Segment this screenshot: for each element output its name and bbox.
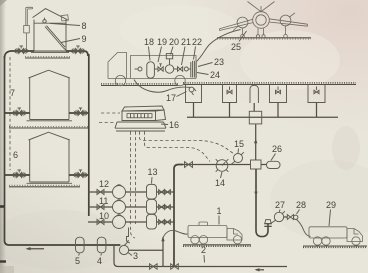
airplane left engine	[233, 17, 248, 30]
filter 13b outlet valves	[157, 205, 175, 210]
label 12	[99, 179, 109, 189]
hydrant riser capsule	[250, 85, 258, 103]
line meter to coupling	[284, 216, 288, 218]
label 16 leader	[161, 123, 168, 126]
label 23 leader	[198, 63, 213, 67]
label 27 leader	[278, 210, 281, 213]
label 17	[166, 93, 176, 103]
label 26	[272, 144, 282, 154]
svg-text:5: 5	[75, 256, 80, 266]
hydrant junction box	[249, 111, 261, 124]
label 27	[275, 200, 285, 210]
refueler truck 1 cab	[227, 229, 242, 241]
svg-text:8: 8	[82, 21, 87, 31]
pit D stub	[316, 103, 318, 118]
loading riser to truck 1	[162, 237, 164, 267]
pit B stub	[229, 103, 231, 118]
pump 3	[119, 240, 128, 255]
label 1 leader	[218, 216, 220, 225]
pit D valve	[314, 87, 319, 94]
right vertical pipe (pump suction header)	[88, 54, 90, 216]
drain from pump 10 to pump 3	[127, 228, 131, 243]
pipe 2 valve a	[150, 264, 158, 269]
servicer truck cab	[108, 53, 127, 79]
label 24	[210, 70, 220, 80]
label 26 leader	[271, 154, 276, 161]
label 4	[97, 256, 102, 266]
label 20	[169, 37, 179, 47]
pit 17 hose end	[189, 87, 196, 95]
pit C valve	[276, 87, 281, 94]
label 15	[234, 139, 244, 149]
svg-text:19: 19	[157, 37, 167, 47]
bottom loading pipe 2	[118, 266, 287, 268]
airplane tail	[248, 2, 275, 12]
hose truck to plane	[197, 30, 241, 62]
label 4 leader	[100, 254, 103, 256]
tank 7 right valve	[74, 108, 87, 116]
console control dashed to meter 14	[145, 132, 211, 162]
truck valve 22	[174, 67, 189, 71]
line to surge tank 26	[261, 164, 267, 166]
tank truck 29	[309, 227, 347, 238]
airplane left wing	[220, 19, 254, 30]
svg-text:18: 18	[144, 37, 154, 47]
label 9	[82, 34, 87, 44]
label 13 leader	[151, 177, 154, 184]
coupling valve 28	[287, 215, 298, 220]
svg-text:1: 1	[217, 206, 222, 216]
surge cylinder 26	[267, 161, 281, 168]
svg-text:23: 23	[214, 57, 224, 67]
label 3	[133, 251, 138, 261]
label 2	[201, 245, 206, 255]
capsule stub	[253, 103, 255, 111]
svg-text:12: 12	[99, 179, 109, 189]
pump 10 suction valve	[97, 219, 104, 224]
filter 5	[76, 237, 85, 253]
swing suction pipe 9	[45, 26, 66, 50]
tank T8 left valve	[15, 46, 28, 54]
svg-text:25: 25	[231, 42, 241, 52]
tank T8 (top storage tank) body	[31, 9, 69, 53]
hydrant pit D	[308, 85, 325, 103]
svg-text:24: 24	[210, 70, 220, 80]
refueler truck 1 ground	[183, 245, 251, 246]
svg-text:16: 16	[169, 120, 179, 130]
tank 7 foundation hatched line	[9, 127, 88, 128]
label 19	[157, 37, 167, 47]
leaders 18-22	[149, 47, 196, 66]
discharge manifold pipe	[174, 165, 183, 267]
tank T8 left outlet pipe	[5, 51, 35, 58]
label 1	[217, 206, 222, 216]
label 16	[169, 120, 179, 130]
label 25 leader	[239, 31, 247, 42]
servicer truck frame	[131, 56, 197, 79]
far-left main pipe (tank farm suction header)	[5, 56, 121, 245]
tank 6 left nozzle pipe	[5, 174, 30, 176]
svg-text:9: 9	[82, 34, 87, 44]
tank 7 left nozzle pipe	[5, 112, 30, 114]
console input dashed lines	[99, 113, 120, 123]
loading riser flange	[264, 220, 271, 227]
label 22	[192, 37, 202, 47]
filter 13c outlet valves	[157, 220, 175, 225]
pump 3 bypass drop	[114, 245, 118, 267]
pump 12 suction line	[88, 191, 112, 193]
hydrant pit C	[270, 85, 287, 103]
pump 11 suction line	[88, 206, 112, 208]
label 8	[82, 21, 87, 31]
hose riser to truck 1	[163, 230, 188, 237]
pump 11	[113, 200, 126, 214]
label 13	[148, 167, 158, 177]
pump 12 discharge line	[126, 191, 147, 193]
pump 11 suction valve	[97, 204, 104, 209]
label 24 leader	[197, 73, 209, 75]
label 29 leader	[329, 210, 331, 227]
hydrant pit B	[223, 85, 237, 103]
label 5 leader	[79, 254, 80, 256]
truck 29 cab	[347, 229, 363, 242]
pressure gauge 15	[231, 152, 244, 164]
filter 4	[97, 237, 106, 253]
tank 6 foundation hatched line	[9, 185, 80, 186]
pump 10	[113, 215, 126, 229]
pit 17 stub	[193, 103, 195, 118]
truck meter 21	[165, 54, 173, 74]
junction box on main	[251, 160, 262, 169]
svg-text:10: 10	[99, 211, 109, 221]
filter 13c	[147, 214, 157, 229]
control console 16	[115, 106, 166, 131]
label 9 leader	[61, 39, 80, 43]
label 5	[75, 256, 80, 266]
refueler truck 1 tank	[188, 222, 227, 238]
tank 7 right nozzle pipe	[69, 112, 88, 114]
scan artifact marks	[0, 0, 14, 273]
refueler truck 1 wheels	[191, 236, 242, 244]
svg-text:21: 21	[181, 37, 191, 47]
label 18	[144, 37, 154, 47]
tank farm boundary dashed line	[9, 57, 11, 170]
label 14 leader	[221, 172, 223, 178]
truck valve 20	[154, 64, 163, 71]
svg-text:29: 29	[326, 200, 336, 210]
airplane ground line	[217, 38, 311, 39]
svg-text:17: 17	[166, 93, 176, 103]
tank T8 liquid level line	[34, 22, 66, 24]
tank 6 right valve	[74, 170, 87, 178]
pump 3 discharge line	[129, 249, 163, 251]
label 11	[99, 196, 108, 206]
truck item 18 flange	[135, 67, 143, 71]
riser main up to hydrant loop	[255, 124, 257, 160]
down arrow on loading line	[254, 192, 257, 196]
riser coupler 23-24	[188, 61, 196, 78]
tank T8 right outlet pipe	[66, 51, 88, 56]
servicer truck ground line	[101, 84, 178, 86]
tank 7 body	[27, 70, 73, 121]
servicer rear wheel	[175, 75, 185, 85]
label 28 leader	[297, 210, 300, 215]
svg-text:22: 22	[192, 37, 202, 47]
down line to loading stand	[256, 169, 268, 237]
label 6	[13, 150, 18, 160]
svg-text:27: 27	[275, 200, 285, 210]
tank 6 body	[27, 132, 73, 183]
svg-text:13: 13	[148, 167, 158, 177]
svg-text:26: 26	[272, 144, 282, 154]
label 8 leader	[50, 23, 80, 25]
label 25	[231, 42, 241, 52]
label 21	[181, 37, 191, 47]
tank T8 roof hatch	[61, 15, 68, 21]
airplane fuselage	[253, 12, 270, 29]
loading meter 27	[271, 211, 285, 223]
tank 6 right nozzle pipe	[69, 174, 88, 176]
servicer front wheel	[115, 75, 125, 85]
transfer line to meter	[183, 164, 251, 166]
pump 10 suction line	[88, 221, 112, 223]
arrow on suction line	[26, 247, 45, 250]
label 29	[326, 200, 336, 210]
transfer line valve	[185, 162, 193, 168]
label 28	[296, 200, 306, 210]
pump 12 suction valve	[97, 189, 104, 194]
hydrant pit 17	[186, 85, 202, 103]
loading hose to truck 29	[297, 220, 311, 237]
pump 10 discharge line	[126, 221, 147, 223]
svg-text:14: 14	[215, 178, 225, 188]
svg-text:28: 28	[296, 200, 306, 210]
truck 29 ground	[303, 246, 367, 247]
console control dashed down to pumps	[131, 132, 136, 239]
svg-text:4: 4	[97, 256, 102, 266]
tank 7 left valve	[13, 108, 26, 116]
tank T8 right valve	[72, 46, 85, 54]
label 15 leader	[237, 149, 240, 154]
svg-text:3: 3	[133, 251, 138, 261]
pit C stub	[277, 103, 279, 118]
pit B valve	[227, 87, 232, 94]
riser arrow up	[161, 237, 164, 242]
svg-text:6: 6	[13, 150, 18, 160]
filter 13a	[147, 184, 157, 199]
truck 29 wheels	[313, 237, 360, 245]
tank 6 left valve	[13, 170, 26, 178]
hydrant main pipe	[187, 116, 338, 118]
label 2 leader	[203, 255, 206, 263]
airplane right engine	[280, 13, 295, 26]
console control dashed to gauge 15	[140, 132, 235, 155]
label 17 leader	[177, 92, 187, 97]
label 10	[99, 211, 109, 221]
console control line down b	[135, 132, 137, 225]
pipe 2 flow arrow	[255, 268, 265, 271]
label 7	[10, 88, 15, 98]
float level gauge 8	[43, 18, 46, 23]
filter 13a outlet valves	[157, 190, 175, 195]
hose truck to pit	[134, 80, 190, 93]
airplane right wing	[269, 19, 308, 26]
apron ground hatched line	[183, 83, 356, 85]
left edge branch stub	[0, 206, 5, 208]
pump 12	[113, 185, 126, 199]
svg-text:20: 20	[169, 37, 179, 47]
svg-text:7: 7	[10, 88, 15, 98]
vent pipe on tank T8	[26, 7, 33, 25]
flame arrester box on vent	[24, 26, 30, 51]
pump 11 discharge line	[126, 206, 147, 208]
svg-text:15: 15	[234, 139, 244, 149]
pipe 2 valve b	[171, 264, 179, 269]
filter 13b	[147, 199, 157, 214]
svg-text:2: 2	[201, 245, 206, 255]
tank T8 foundation hatched line	[25, 57, 70, 58]
truck filter 19	[147, 62, 155, 78]
label 3 leader	[128, 253, 132, 256]
label 23	[214, 57, 224, 67]
servicer truck chassis	[108, 78, 196, 80]
svg-text:11: 11	[99, 196, 108, 206]
airplane landing gear	[241, 26, 288, 38]
flow meter 14	[216, 159, 229, 172]
label 14	[215, 178, 225, 188]
up arrow on riser	[254, 139, 257, 144]
